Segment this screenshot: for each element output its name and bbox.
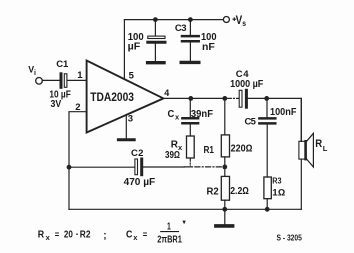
label C3 value (201, 32, 217, 53)
svg-text:i: i (34, 70, 36, 77)
wire C1 to pin1 (67, 79, 86, 81)
svg-text:R2: R2 (80, 229, 91, 240)
svg-text:1000 µF: 1000 µF (230, 79, 263, 90)
wire C2 to Rx node (143, 166, 184, 168)
wire pin3 vertical (125, 115, 127, 139)
wire C3 bottom lead (189, 43, 191, 61)
svg-text:220Ω: 220Ω (231, 144, 253, 155)
label C2 (131, 148, 143, 159)
capacitor Cx (182, 118, 198, 123)
wire pin2 to feedback node (69, 112, 87, 168)
svg-text:=: = (55, 229, 60, 239)
wire ground stem below R2 (224, 209, 226, 224)
resistor R1 (221, 135, 229, 157)
svg-text:100nF: 100nF (270, 107, 296, 118)
svg-text:1: 1 (77, 70, 83, 81)
wire C4 to C5 node (248, 97, 266, 99)
wire R3 bottom lead (266, 199, 268, 210)
wire 100uF top lead (154, 20, 156, 36)
svg-text:470 µF: 470 µF (124, 177, 156, 188)
terminal +Vs (223, 17, 229, 23)
wire top supply rail (124, 19, 223, 21)
wire C5 node to RL corner (266, 98, 301, 141)
svg-text:µF: µF (128, 42, 141, 53)
svg-text:R: R (38, 229, 45, 240)
terminal Vi input (36, 78, 43, 85)
junction dot output at Cx (188, 96, 193, 101)
label 100uF value (128, 32, 144, 53)
label Vi (28, 64, 36, 77)
svg-text:3V: 3V (51, 99, 62, 110)
junction dot top rail at C3 (188, 17, 193, 22)
svg-text:5: 5 (251, 117, 257, 128)
label +Vs (233, 13, 246, 28)
svg-text:C: C (126, 229, 132, 240)
label Cx (168, 109, 181, 121)
svg-text:3: 3 (181, 23, 186, 34)
junction dot output at C5 (264, 96, 269, 101)
wire C5 to R3 (266, 125, 268, 177)
capacitor C2 (135, 159, 142, 175)
resistor R3 (264, 177, 271, 199)
wire feedback node to C2 (69, 166, 135, 168)
svg-text:C: C (131, 148, 138, 159)
svg-text:R: R (315, 138, 322, 150)
ground below R2 (216, 224, 233, 228)
wire Vi to C1 (42, 79, 59, 81)
wire R2 bottom lead (224, 200, 226, 209)
svg-text:x: x (175, 112, 180, 121)
resistor R2 (221, 176, 229, 200)
capacitor C4 (239, 90, 246, 107)
svg-text:TDA2003: TDA2003 (90, 90, 134, 104)
svg-text:3: 3 (128, 113, 133, 124)
junction dot bottom rail at R2 (222, 207, 227, 212)
resistor Rx (187, 136, 195, 158)
wire bottom rail (69, 208, 301, 210)
junction dot feedback node (67, 165, 72, 170)
wire Rx bottom lead (189, 158, 191, 167)
svg-text:C: C (168, 109, 175, 120)
svg-text:1: 1 (63, 59, 69, 70)
ground below pin3 (118, 138, 134, 141)
svg-text:2.2Ω: 2.2Ω (230, 186, 249, 197)
svg-text:x: x (46, 233, 51, 242)
svg-text:s: s (242, 19, 246, 28)
label C5 (245, 117, 257, 128)
wire dashed output to C4 (228, 97, 239, 99)
capacitor C1 (61, 74, 67, 88)
svg-text:4: 4 (164, 88, 169, 98)
label C1 (56, 59, 69, 70)
svg-text:20: 20 (64, 229, 73, 240)
svg-text:L: L (323, 144, 328, 153)
svg-text:=: = (143, 229, 148, 239)
svg-text:nF: nF (202, 42, 215, 53)
svg-text:5: 5 (129, 71, 135, 82)
formula Rx = 20*R2 ; Cx = 1/(2piBR1) (38, 221, 182, 245)
svg-text:R1: R1 (204, 145, 215, 156)
svg-text:1Ω: 1Ω (272, 188, 285, 198)
wire C3 top lead (189, 20, 191, 35)
svg-text:1: 1 (167, 221, 171, 232)
wire Cx top lead (189, 98, 191, 117)
junction dot top rail at 100uF (153, 17, 158, 22)
speaker RL (299, 133, 314, 167)
wire pin5 vertical (123, 20, 125, 79)
svg-text:39Ω: 39Ω (165, 150, 180, 161)
wire feedback node down to bottom rail (68, 167, 70, 209)
svg-text:x: x (133, 233, 138, 242)
ground below C3 (181, 61, 199, 64)
label Rx (171, 140, 183, 153)
wire RL bottom lead (300, 159, 302, 209)
svg-text:;: ; (103, 231, 106, 242)
svg-text:·: · (76, 229, 79, 240)
svg-text:S - 3205: S - 3205 (277, 233, 303, 243)
wire RL top lead (300, 98, 302, 141)
capacitor C3 (182, 36, 199, 41)
svg-text:2πBR1: 2πBR1 (157, 235, 182, 246)
junction dot output at R1 (222, 96, 227, 101)
label C1 value 10uF 3V (49, 89, 70, 110)
wire R1 top lead (224, 98, 226, 134)
ground below 100uF (148, 61, 164, 64)
label C4 (236, 69, 250, 80)
footnote mark (182, 221, 185, 225)
junction dot bottom rail at R3 (265, 207, 270, 212)
junction dot R1-R2 node (222, 165, 227, 170)
wire R1 to R2 (224, 157, 226, 177)
wire dashed Rx node to R1-R2 junction (184, 166, 223, 168)
label C3 (175, 23, 187, 34)
label RL (315, 138, 328, 153)
op-amp U1 TDA2003 triangle (87, 61, 164, 133)
wire 100uF bottom lead (154, 44, 156, 61)
wire C5 top lead (266, 98, 268, 117)
capacitor 100uF (148, 36, 165, 42)
svg-text:R2: R2 (207, 187, 220, 198)
capacitor C5 (259, 118, 275, 123)
svg-text:R3: R3 (272, 176, 282, 185)
wire Cx to Rx (189, 124, 191, 136)
wire pin4 output (163, 97, 224, 99)
